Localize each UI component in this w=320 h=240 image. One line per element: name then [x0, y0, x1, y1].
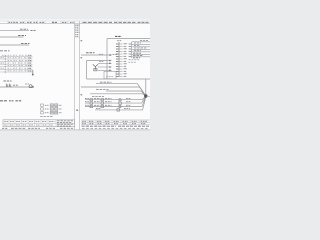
connector pin stubs and labels: [119, 44, 127, 77]
wire M4: [90, 94, 146, 96]
legend row 1 right text: [59, 104, 62, 106]
page sheet (two sheets abutting, cropped left and right): [0, 20, 150, 130]
pin arrow S3: [105, 69, 110, 71]
label I1: [134, 42, 141, 44]
ECU box K1 left edge: [106, 39, 108, 79]
wire W2 left sheet: [0, 36, 24, 38]
pin arrow W4: [107, 54, 110, 56]
internal wire I1: [132, 43, 151, 45]
note line text left sheet: [0, 100, 22, 102]
right title block rule 2: [81, 121, 150, 123]
sensor box left edge: [86, 61, 88, 80]
legend row 1 text: [45, 104, 49, 106]
revision note text block: [75, 25, 79, 36]
legend row 3 connector boxes: [50, 112, 53, 115]
harness row R3: [85, 97, 146, 108]
inner module text: [106, 76, 113, 78]
label W4: [86, 52, 95, 54]
wire into pin row 8: [107, 60, 110, 62]
harness bundle wire B2: [0, 58, 33, 60]
connector dot on G1: [32, 86, 34, 88]
harness bundle wire B1: [0, 55, 33, 57]
wire W1 left sheet: [0, 30, 29, 32]
inner module box: [104, 71, 116, 78]
label sensor: [99, 61, 104, 63]
internal wire I3: [132, 48, 151, 50]
header revision strip bottom rule: [0, 23, 150, 25]
left sheet footer text: [2, 127, 73, 129]
sheet bottom edge: [0, 129, 150, 131]
internal wire I5: [132, 53, 151, 55]
zone letter mark mid column: [76, 109, 78, 111]
right sheet footer text row 2: [82, 127, 148, 129]
connector name block: [133, 53, 143, 58]
label I2: [134, 45, 140, 47]
wire W4 into ECU: [81, 54, 107, 56]
label W2: [18, 35, 26, 37]
wire M3: [106, 91, 146, 96]
sensor stub S1: [98, 62, 105, 64]
internal wire I0: [132, 41, 151, 43]
label M4: [92, 95, 104, 97]
pin number texts: [129, 44, 131, 57]
right title block top rule: [81, 119, 150, 121]
pin arrow S1: [105, 62, 110, 64]
internal wire I2: [132, 46, 151, 48]
harness row R1: [85, 96, 146, 101]
internal wire I4: [132, 51, 151, 53]
connector ladder name label: [117, 40, 122, 42]
legend footnote text: [40, 115, 52, 117]
header strip text right sheet: [83, 21, 149, 23]
ECU box K1 top edge: [107, 38, 150, 40]
splice node star: [145, 79, 147, 96]
harness bundle wire B6: [0, 68, 33, 70]
label M1: [100, 81, 112, 83]
legend row 2 right text: [59, 108, 62, 110]
label above ring: [25, 83, 29, 85]
harness bundle wire B5: [0, 66, 33, 68]
zone column right rule (left sheet right border): [79, 21, 81, 130]
label I0: [140, 40, 148, 42]
splice ray right: [146, 95, 150, 98]
sensor box top edge: [87, 60, 108, 62]
right sheet zone tick a: [81, 40, 83, 41]
left title block part number block: [57, 121, 73, 126]
wire W3 left sheet: [0, 44, 29, 46]
wire M1 below box: [96, 84, 146, 96]
internal wire I6: [132, 56, 151, 58]
wire text row 2 below I6: [129, 61, 137, 63]
pin arrow S2: [105, 66, 110, 68]
harness row R2: [85, 96, 146, 104]
revision note box divider bottom: [75, 36, 80, 38]
sensor stub S3: [98, 69, 105, 71]
left title block row 1 text: [4, 121, 54, 123]
harness bundle wire B7: [0, 71, 33, 73]
bundle junction drop: [32, 70, 34, 75]
ECU box bottom edge: [87, 78, 151, 80]
label I3: [134, 47, 147, 49]
wire M2 bus: [81, 87, 146, 96]
label W1: [20, 28, 28, 30]
right title block rule 3: [81, 124, 150, 126]
right sheet footer text: [82, 125, 150, 127]
left title block outline: [3, 120, 75, 127]
header strip text left sheet: [9, 21, 74, 23]
right title block row 2 text: [82, 123, 146, 125]
label C-xx note: [0, 50, 10, 52]
harness row R4: [95, 97, 146, 111]
legend row 2 symbol box: [41, 108, 44, 110]
left title block dividers: [9, 120, 56, 127]
left title block row 2 text: [4, 124, 53, 126]
pin number column rule: [131, 42, 133, 58]
legend row 3 text: [45, 112, 49, 114]
connector ring on G1: [29, 85, 32, 88]
label above battery: [4, 80, 12, 82]
connector ladder spine: [118, 42, 120, 77]
viewer background: [0, 0, 150, 150]
legend row 1 connector boxes: [50, 104, 53, 107]
bundle junction node: [32, 74, 34, 76]
header revision strip top rule: [0, 20, 150, 22]
zone column left rule of left sheet: [74, 21, 76, 130]
legend row 1 symbol box: [41, 104, 44, 106]
wire text row below I6: [129, 59, 141, 61]
left title block mid rule: [3, 122, 75, 124]
legend row 2 text: [45, 108, 49, 110]
ladder left pin numbers: [116, 44, 118, 77]
legend row 2 connector boxes: [50, 108, 53, 111]
sensor Y symbol: [93, 64, 98, 71]
right sheet zone tick c: [81, 94, 83, 95]
harness bundle wire B3: [0, 60, 33, 62]
connector end mark W1: [31, 30, 37, 32]
label W3: [21, 43, 30, 45]
legend row 3 right text: [59, 112, 62, 114]
label I4: [134, 50, 141, 52]
label M2: [96, 89, 109, 91]
sensor stub S2: [98, 66, 105, 68]
right title block dividers: [88, 120, 139, 127]
header strip cell dividers left sheet: [8, 21, 68, 24]
right sheet zone tick b: [81, 57, 83, 58]
legend row 3 symbol box: [41, 112, 44, 114]
splice mark on W4: [99, 53, 103, 55]
harness bundle wire B4: [0, 63, 33, 65]
label on G1 mid: [13, 84, 18, 86]
revision note box divider: [75, 23, 80, 25]
battery component on G1: [6, 84, 11, 87]
ground bus wire G1: [0, 86, 34, 88]
ECU label: [115, 35, 122, 37]
right title block row 1 text: [82, 120, 147, 122]
